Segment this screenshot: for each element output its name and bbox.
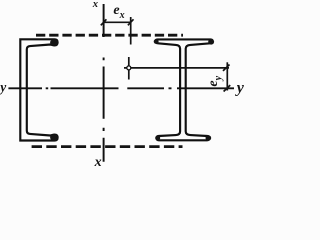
svg-text:y: y (235, 80, 245, 97)
svg-text:x: x (94, 155, 102, 170)
svg-text:ey: ey (206, 75, 224, 86)
svg-text:y: y (0, 79, 7, 94)
svg-text:x: x (92, 0, 98, 10)
svg-text:ex: ex (113, 3, 124, 21)
